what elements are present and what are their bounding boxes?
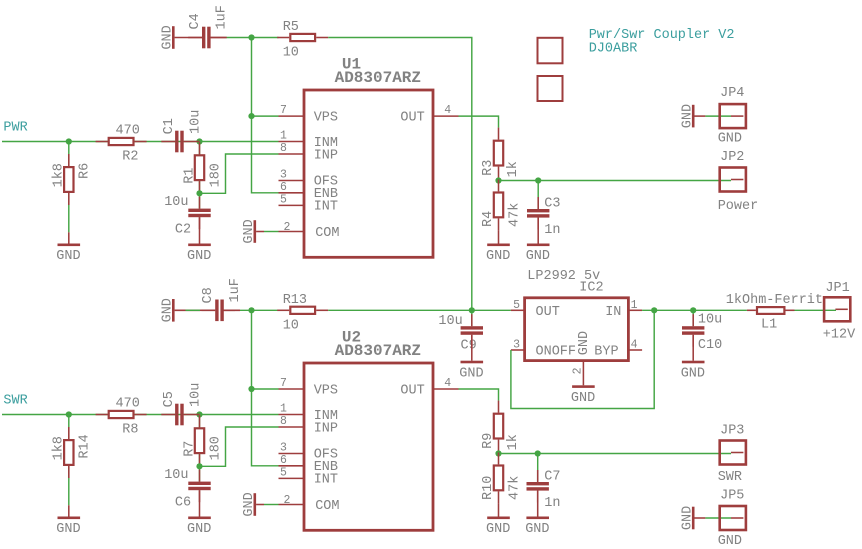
svg-text:INP: INP bbox=[314, 149, 338, 164]
svg-text:GND: GND bbox=[242, 492, 257, 516]
junction C1/R1 bbox=[196, 138, 202, 144]
svg-text:GND: GND bbox=[187, 249, 211, 264]
svg-text:180: 180 bbox=[209, 163, 224, 187]
wire R13 to IC2 OUT bbox=[328, 309, 511, 311]
mounting square 1 bbox=[538, 38, 563, 64]
ground below C9 bbox=[459, 335, 483, 382]
ground below C2 bbox=[187, 217, 211, 264]
svg-text:10u: 10u bbox=[698, 312, 722, 327]
svg-text:JP5: JP5 bbox=[720, 489, 744, 504]
junction C5/R7 bbox=[196, 411, 202, 417]
svg-text:GND: GND bbox=[577, 331, 592, 355]
svg-text:1: 1 bbox=[631, 299, 638, 312]
svg-text:1: 1 bbox=[280, 403, 287, 416]
op-amp U1 AD8307ARZ box bbox=[304, 90, 433, 257]
svg-text:C6: C6 bbox=[175, 495, 191, 510]
ground at C4 bbox=[160, 25, 202, 49]
ground below R14 bbox=[56, 505, 80, 537]
svg-text:10u: 10u bbox=[189, 383, 204, 407]
svg-text:5: 5 bbox=[513, 299, 520, 312]
svg-text:SWR: SWR bbox=[718, 470, 742, 485]
capacitor C3 bbox=[527, 197, 549, 230]
svg-text:C5: C5 bbox=[162, 391, 177, 407]
svg-text:R10: R10 bbox=[481, 476, 496, 500]
svg-text:JP3: JP3 bbox=[720, 424, 744, 439]
svg-text:1k: 1k bbox=[506, 434, 521, 450]
wire to VPS pin bbox=[252, 115, 279, 117]
top 5V rail wire bbox=[226, 37, 279, 39]
svg-text:8: 8 bbox=[280, 142, 287, 155]
svg-text:1k8: 1k8 bbox=[51, 436, 66, 460]
svg-text:ONOFF: ONOFF bbox=[536, 345, 577, 360]
U1 pin labels bbox=[314, 110, 425, 241]
svg-text:JP4: JP4 bbox=[720, 86, 744, 101]
svg-text:C9: C9 bbox=[461, 339, 477, 354]
wire GND to COM pin bbox=[264, 231, 279, 233]
svg-text:R9: R9 bbox=[481, 433, 496, 449]
svg-text:GND: GND bbox=[681, 366, 705, 381]
junction VPS bbox=[248, 113, 254, 119]
wire to VPS pin U2 bbox=[252, 388, 279, 390]
connector JP5 bbox=[720, 506, 746, 530]
resistor R14 bbox=[51, 427, 92, 478]
lead C8 right bbox=[223, 309, 235, 311]
svg-text:47k: 47k bbox=[507, 476, 522, 500]
capacitor C2 bbox=[188, 197, 210, 230]
wire IN to node bbox=[642, 309, 747, 311]
svg-text:GND: GND bbox=[242, 219, 257, 243]
svg-text:AD8307ARZ: AD8307ARZ bbox=[335, 342, 421, 360]
svg-text:7: 7 bbox=[280, 377, 287, 390]
ground at JP5 bbox=[680, 506, 705, 530]
svg-text:AD8307ARZ: AD8307ARZ bbox=[335, 69, 421, 87]
svg-text:1kOhm-Ferrit: 1kOhm-Ferrit bbox=[726, 293, 823, 308]
svg-text:3: 3 bbox=[280, 442, 287, 455]
svg-text:R3: R3 bbox=[481, 160, 496, 176]
IC2 pin lead GND pin 2 bbox=[582, 361, 584, 386]
svg-text:BYP: BYP bbox=[594, 345, 618, 360]
connector JP3 bbox=[720, 441, 746, 465]
svg-text:R2: R2 bbox=[122, 150, 138, 165]
svg-text:R14: R14 bbox=[78, 434, 93, 458]
wire C3 branch bbox=[537, 181, 539, 209]
svg-text:VPS: VPS bbox=[314, 383, 338, 398]
bottom 5V rail wire bbox=[226, 309, 279, 311]
svg-text:1n: 1n bbox=[544, 223, 560, 238]
wire VPS/ENB column U2 bbox=[252, 310, 279, 466]
resistor R1 bbox=[183, 142, 224, 193]
svg-text:10u: 10u bbox=[164, 468, 188, 483]
svg-text:+12V: +12V bbox=[823, 328, 856, 343]
svg-text:IC2: IC2 bbox=[579, 281, 603, 296]
ground at JP4 bbox=[680, 104, 705, 128]
svg-text:R5: R5 bbox=[283, 20, 299, 35]
svg-text:Power: Power bbox=[718, 199, 759, 214]
svg-text:2: 2 bbox=[284, 221, 291, 234]
capacitor C6 bbox=[188, 470, 210, 503]
U2 pin leads left bbox=[279, 389, 305, 505]
svg-text:GND: GND bbox=[187, 522, 211, 537]
capacitor C4 bbox=[188, 27, 227, 49]
IC2 pin labels bbox=[536, 305, 622, 360]
wire GND to JP5 bbox=[705, 517, 731, 519]
svg-text:OUT: OUT bbox=[400, 110, 424, 125]
svg-text:C4: C4 bbox=[188, 13, 203, 29]
wire VPS/ENB column bbox=[252, 38, 279, 193]
wire PWR net horizontal bbox=[2, 141, 279, 143]
svg-text:180: 180 bbox=[209, 436, 224, 460]
wire to INP pin bbox=[200, 154, 279, 193]
U1 pin numbers bbox=[280, 104, 451, 234]
svg-text:4: 4 bbox=[444, 377, 451, 390]
ground at U1 COM bbox=[242, 219, 264, 243]
wire C6 branch bbox=[199, 466, 201, 481]
svg-text:470: 470 bbox=[116, 397, 140, 412]
resistor R8 bbox=[96, 397, 147, 438]
resistor R3 bbox=[481, 128, 521, 179]
svg-text:GND: GND bbox=[459, 366, 483, 381]
mounting square 2 bbox=[538, 76, 563, 101]
wire divider to JP2 bbox=[499, 180, 732, 182]
resistor R7 bbox=[183, 415, 224, 466]
svg-text:COM: COM bbox=[315, 226, 339, 241]
svg-text:PWR: PWR bbox=[3, 121, 27, 136]
ground below C7 bbox=[525, 491, 549, 538]
IC2 pin lead BYP bbox=[628, 349, 642, 351]
svg-text:4: 4 bbox=[444, 104, 451, 117]
svg-text:INT: INT bbox=[314, 473, 338, 488]
svg-text:R8: R8 bbox=[122, 423, 138, 438]
junction 5V/VPS column U2 bbox=[248, 307, 254, 313]
wire R5 to 5V column bbox=[328, 38, 472, 311]
U2 pin numbers bbox=[280, 377, 451, 507]
resistor R10 bbox=[481, 452, 522, 503]
junction C3 bbox=[535, 177, 541, 183]
svg-text:4: 4 bbox=[631, 339, 638, 352]
svg-text:GND: GND bbox=[718, 132, 742, 147]
svg-text:R13: R13 bbox=[283, 293, 307, 308]
junction R1/C2/INP bbox=[196, 190, 202, 196]
svg-text:2: 2 bbox=[572, 367, 585, 374]
svg-text:OUT: OUT bbox=[536, 305, 560, 320]
ground below C10 bbox=[681, 335, 705, 382]
connector JP4 bbox=[720, 104, 746, 128]
svg-text:1k8: 1k8 bbox=[51, 163, 66, 187]
junction R9/R10 bbox=[495, 450, 501, 456]
svg-text:GND: GND bbox=[160, 298, 175, 322]
svg-text:R4: R4 bbox=[481, 211, 496, 227]
svg-text:JP2: JP2 bbox=[720, 150, 744, 165]
capacitor C8 bbox=[201, 300, 240, 322]
wire L1 to JP1 bbox=[795, 309, 837, 311]
svg-text:L1: L1 bbox=[761, 318, 777, 333]
ground below IC2 pin 2 bbox=[571, 385, 595, 406]
svg-text:5: 5 bbox=[280, 194, 287, 207]
svg-text:SWR: SWR bbox=[3, 394, 27, 409]
IC2 pin numbers bbox=[513, 299, 638, 374]
svg-text:COM: COM bbox=[315, 499, 339, 514]
junction C9 bbox=[469, 307, 475, 313]
svg-text:IN: IN bbox=[605, 305, 621, 320]
IC2 pin lead ONOFF bbox=[511, 349, 525, 351]
lead C4 right bbox=[210, 37, 226, 39]
svg-text:1n: 1n bbox=[544, 496, 560, 511]
svg-text:GND: GND bbox=[56, 249, 80, 264]
wire C9 branch bbox=[471, 310, 473, 326]
wire SWR net horizontal bbox=[2, 414, 279, 416]
ground below R10 bbox=[486, 503, 510, 537]
U1 pin leads left bbox=[279, 116, 305, 231]
wire divider to JP3 bbox=[499, 453, 732, 455]
svg-text:1uF: 1uF bbox=[228, 278, 243, 302]
svg-text:GND: GND bbox=[680, 104, 695, 128]
wire C7 branch bbox=[537, 454, 539, 482]
IC2 pin lead OUT bbox=[511, 309, 525, 311]
wire GND to JP4 bbox=[705, 115, 731, 117]
capacitor C5 bbox=[161, 404, 200, 426]
wire R7 branch bbox=[199, 415, 201, 467]
wire ONOFF loop bbox=[511, 310, 654, 408]
wire R6 branch bbox=[68, 142, 70, 233]
junction PWR/R6 bbox=[66, 138, 72, 144]
svg-text:10u: 10u bbox=[189, 110, 204, 134]
junction VPS U2 bbox=[248, 386, 254, 392]
U1 pin lead OUT bbox=[433, 115, 459, 117]
wire R1 branch bbox=[199, 142, 201, 194]
resistor R5 bbox=[277, 20, 328, 61]
svg-text:10u: 10u bbox=[438, 314, 462, 329]
op-amp U2 AD8307ARZ box bbox=[304, 363, 433, 530]
resistor R6 bbox=[51, 154, 92, 205]
svg-text:1: 1 bbox=[280, 130, 287, 143]
svg-text:VPS: VPS bbox=[314, 110, 338, 125]
wire R14 branch bbox=[68, 415, 70, 506]
resistor R13 bbox=[277, 293, 328, 334]
U2 pin labels bbox=[314, 383, 425, 514]
svg-text:1k: 1k bbox=[506, 161, 521, 177]
regulator IC2 box bbox=[525, 298, 629, 361]
capacitor C9 bbox=[461, 314, 483, 347]
svg-text:10: 10 bbox=[283, 46, 299, 61]
svg-text:C10: C10 bbox=[698, 338, 722, 353]
svg-text:R7: R7 bbox=[183, 441, 198, 457]
svg-text:GND: GND bbox=[56, 522, 80, 537]
svg-text:3: 3 bbox=[513, 339, 520, 352]
ground below C6 bbox=[187, 490, 211, 537]
wire to INP pin U2 bbox=[200, 427, 279, 466]
svg-text:10u: 10u bbox=[164, 195, 188, 210]
wire U2 OUT to R9 bbox=[459, 389, 499, 401]
wire C8 gnd lead green part bbox=[186, 309, 201, 311]
resistor R4 bbox=[481, 179, 522, 230]
capacitor C7 bbox=[527, 470, 549, 503]
junction SWR/R14 bbox=[66, 411, 72, 417]
junction C10 bbox=[690, 307, 696, 313]
IC2 pin lead IN bbox=[628, 309, 642, 311]
svg-text:2: 2 bbox=[284, 494, 291, 507]
svg-text:7: 7 bbox=[280, 104, 287, 117]
svg-text:GND: GND bbox=[486, 249, 510, 264]
wire GND to COM pin U2 bbox=[264, 504, 279, 506]
wire C10 branch bbox=[692, 310, 694, 326]
capacitor C10 bbox=[682, 314, 704, 347]
svg-text:GND: GND bbox=[160, 25, 175, 49]
svg-text:6: 6 bbox=[280, 181, 287, 194]
svg-text:R1: R1 bbox=[183, 168, 198, 184]
svg-text:5: 5 bbox=[280, 467, 287, 480]
junction R3/R4 bbox=[495, 177, 501, 183]
svg-text:GND: GND bbox=[718, 534, 742, 549]
ground at C8 bbox=[160, 298, 200, 322]
ground below R6 bbox=[56, 232, 80, 264]
svg-text:C7: C7 bbox=[544, 469, 560, 484]
svg-text:C2: C2 bbox=[175, 222, 191, 237]
svg-text:JP1: JP1 bbox=[825, 281, 849, 296]
ground below C3 bbox=[526, 218, 550, 265]
resistor R2 bbox=[96, 124, 147, 165]
junction R7/C6/INP bbox=[196, 463, 202, 469]
junction IN node bbox=[651, 307, 657, 313]
svg-text:8: 8 bbox=[280, 415, 287, 428]
svg-text:R6: R6 bbox=[78, 163, 93, 179]
junction C7 bbox=[535, 450, 541, 456]
svg-text:10: 10 bbox=[283, 319, 299, 334]
connector JP1 bbox=[824, 297, 850, 321]
svg-text:GND: GND bbox=[525, 522, 549, 537]
U2 pin lead OUT bbox=[433, 388, 459, 390]
connector JP2 bbox=[720, 168, 746, 192]
svg-text:C1: C1 bbox=[162, 118, 177, 134]
svg-text:1uF: 1uF bbox=[215, 5, 230, 29]
ground at U2 COM bbox=[242, 492, 264, 516]
svg-text:C8: C8 bbox=[201, 287, 216, 303]
svg-text:470: 470 bbox=[116, 124, 140, 139]
svg-text:GND: GND bbox=[526, 249, 550, 264]
svg-text:C3: C3 bbox=[544, 196, 560, 211]
wire C2 branch bbox=[199, 193, 201, 208]
svg-text:DJ0ABR: DJ0ABR bbox=[589, 41, 638, 56]
svg-text:6: 6 bbox=[280, 454, 287, 467]
junction 5V/VPS column bbox=[248, 34, 254, 40]
capacitor C1 bbox=[161, 131, 200, 153]
svg-text:3: 3 bbox=[280, 169, 287, 182]
svg-text:INP: INP bbox=[314, 422, 338, 437]
svg-text:GND: GND bbox=[571, 391, 595, 406]
svg-text:GND: GND bbox=[680, 506, 695, 530]
svg-text:GND: GND bbox=[486, 522, 510, 537]
resistor R9 bbox=[481, 401, 521, 452]
svg-text:OUT: OUT bbox=[400, 383, 424, 398]
lead C8 left bbox=[200, 309, 215, 311]
svg-text:47k: 47k bbox=[507, 203, 522, 227]
inductor L1 bbox=[747, 307, 795, 314]
svg-text:INT: INT bbox=[314, 200, 338, 215]
wire U1 OUT to R3 bbox=[459, 116, 499, 128]
ground below R4 bbox=[486, 230, 510, 264]
